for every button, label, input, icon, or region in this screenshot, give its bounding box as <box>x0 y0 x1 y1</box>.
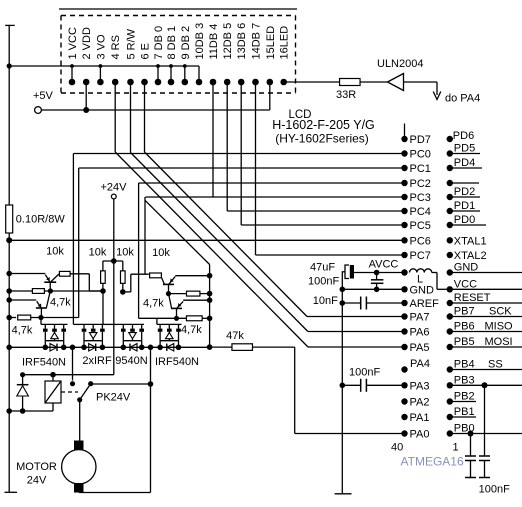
svg-text:PD5: PD5 <box>454 143 475 155</box>
svg-text:1 VCC: 1 VCC <box>67 27 79 59</box>
svg-text:11DB 4: 11DB 4 <box>208 24 220 60</box>
svg-text:SS: SS <box>488 359 503 371</box>
svg-text:13DB 6: 13DB 6 <box>236 23 248 60</box>
svg-text:do PA4: do PA4 <box>445 93 480 105</box>
svg-text:PA7: PA7 <box>410 312 430 324</box>
svg-text:PK24V: PK24V <box>96 392 131 404</box>
svg-text:100nF: 100nF <box>349 367 380 379</box>
svg-text:+24V: +24V <box>101 182 128 194</box>
svg-text:7 DB 0: 7 DB 0 <box>153 26 165 60</box>
svg-text:XTAL1: XTAL1 <box>454 235 487 247</box>
svg-text:PC6: PC6 <box>410 235 431 247</box>
svg-text:PC4: PC4 <box>410 206 431 218</box>
svg-text:AVCC: AVCC <box>369 259 399 271</box>
svg-text:9540N: 9540N <box>115 355 147 367</box>
svg-text:IRF540N: IRF540N <box>155 356 199 368</box>
svg-text:MOTOR: MOTOR <box>16 461 57 473</box>
svg-text:4,7k: 4,7k <box>12 325 33 337</box>
svg-text:PA6: PA6 <box>410 327 430 339</box>
svg-text:MISO: MISO <box>485 321 514 333</box>
svg-text:AREF: AREF <box>410 298 440 310</box>
svg-text:GND: GND <box>454 262 479 274</box>
svg-text:33R: 33R <box>336 89 356 101</box>
svg-text:PB2: PB2 <box>454 391 475 403</box>
svg-text:PB7: PB7 <box>454 306 475 318</box>
svg-text:PC1: PC1 <box>410 163 431 175</box>
svg-text:24V: 24V <box>27 475 47 487</box>
svg-text:MOSI: MOSI <box>485 336 513 348</box>
svg-text:10nF: 10nF <box>313 295 338 307</box>
svg-text:PD0: PD0 <box>454 214 475 226</box>
svg-text:15LED: 15LED <box>265 26 277 60</box>
svg-text:4,7k: 4,7k <box>181 324 202 336</box>
svg-text:RESET: RESET <box>454 292 491 304</box>
svg-text:PB5: PB5 <box>454 336 475 348</box>
svg-text:10k: 10k <box>89 247 107 259</box>
svg-text:10k: 10k <box>116 247 134 259</box>
svg-text:10k: 10k <box>46 246 64 258</box>
svg-text:ULN2004: ULN2004 <box>377 58 423 70</box>
svg-text:PC3: PC3 <box>410 192 431 204</box>
svg-text:PA4: PA4 <box>410 358 430 370</box>
svg-text:40: 40 <box>391 442 403 454</box>
svg-text:PA5: PA5 <box>410 342 430 354</box>
svg-text:+5V: +5V <box>33 90 54 102</box>
svg-text:PC5: PC5 <box>410 220 431 232</box>
svg-text:9 DB 2: 9 DB 2 <box>180 26 192 60</box>
svg-text:14DB 7: 14DB 7 <box>251 23 263 60</box>
svg-text:L: L <box>417 274 423 286</box>
svg-text:XTAL2: XTAL2 <box>454 250 487 262</box>
svg-text:PA2: PA2 <box>410 397 430 409</box>
svg-text:2 VDD: 2 VDD <box>81 27 93 59</box>
svg-text:PC7: PC7 <box>410 250 431 262</box>
svg-text:1: 1 <box>453 442 459 454</box>
svg-text:PC0: PC0 <box>410 149 431 161</box>
svg-text:PA0: PA0 <box>410 429 430 441</box>
svg-text:ATMEGA16: ATMEGA16 <box>401 455 464 469</box>
svg-text:10DB 3: 10DB 3 <box>194 23 206 60</box>
svg-text:PB4: PB4 <box>454 359 475 371</box>
svg-text:IRF540N: IRF540N <box>22 357 66 369</box>
svg-text:PA3: PA3 <box>410 380 430 392</box>
svg-text:4,7k: 4,7k <box>143 298 164 310</box>
svg-text:3 VO: 3 VO <box>95 34 107 60</box>
svg-text:16LED: 16LED <box>279 26 291 60</box>
svg-text:12DB 5: 12DB 5 <box>222 23 234 60</box>
svg-text:PD4: PD4 <box>454 157 475 169</box>
svg-text:H-1602-F-205 Y/G: H-1602-F-205 Y/G <box>272 118 375 132</box>
svg-text:4,7k: 4,7k <box>50 297 71 309</box>
svg-text:PB1: PB1 <box>454 406 475 418</box>
svg-text:PC2: PC2 <box>410 178 431 190</box>
svg-text:PD7: PD7 <box>410 134 431 146</box>
svg-text:VCC: VCC <box>454 278 477 290</box>
svg-text:10k: 10k <box>152 247 170 259</box>
svg-text:47uF: 47uF <box>310 262 335 274</box>
svg-text:5 R/W: 5 R/W <box>126 28 138 59</box>
svg-text:PD2: PD2 <box>454 186 475 198</box>
svg-text:6 E: 6 E <box>140 43 152 60</box>
svg-text:PB3: PB3 <box>454 374 475 386</box>
svg-text:PB6: PB6 <box>454 321 475 333</box>
svg-text:100nF: 100nF <box>479 484 510 496</box>
svg-text:PD1: PD1 <box>454 200 475 212</box>
svg-text:8 DB 1: 8 DB 1 <box>166 26 178 60</box>
svg-text:SCK: SCK <box>489 306 512 318</box>
svg-text:PD6: PD6 <box>453 130 474 142</box>
svg-text:2xIRF: 2xIRF <box>82 355 112 367</box>
svg-text:PA1: PA1 <box>410 412 430 424</box>
svg-text:0.10R/8W: 0.10R/8W <box>16 214 66 226</box>
svg-text:GND: GND <box>410 284 435 296</box>
svg-text:100nF: 100nF <box>308 276 339 288</box>
svg-text:4 RS: 4 RS <box>110 35 122 59</box>
svg-text:47k: 47k <box>226 330 244 342</box>
svg-text:(HY-1602Fseries): (HY-1602Fseries) <box>275 132 369 146</box>
